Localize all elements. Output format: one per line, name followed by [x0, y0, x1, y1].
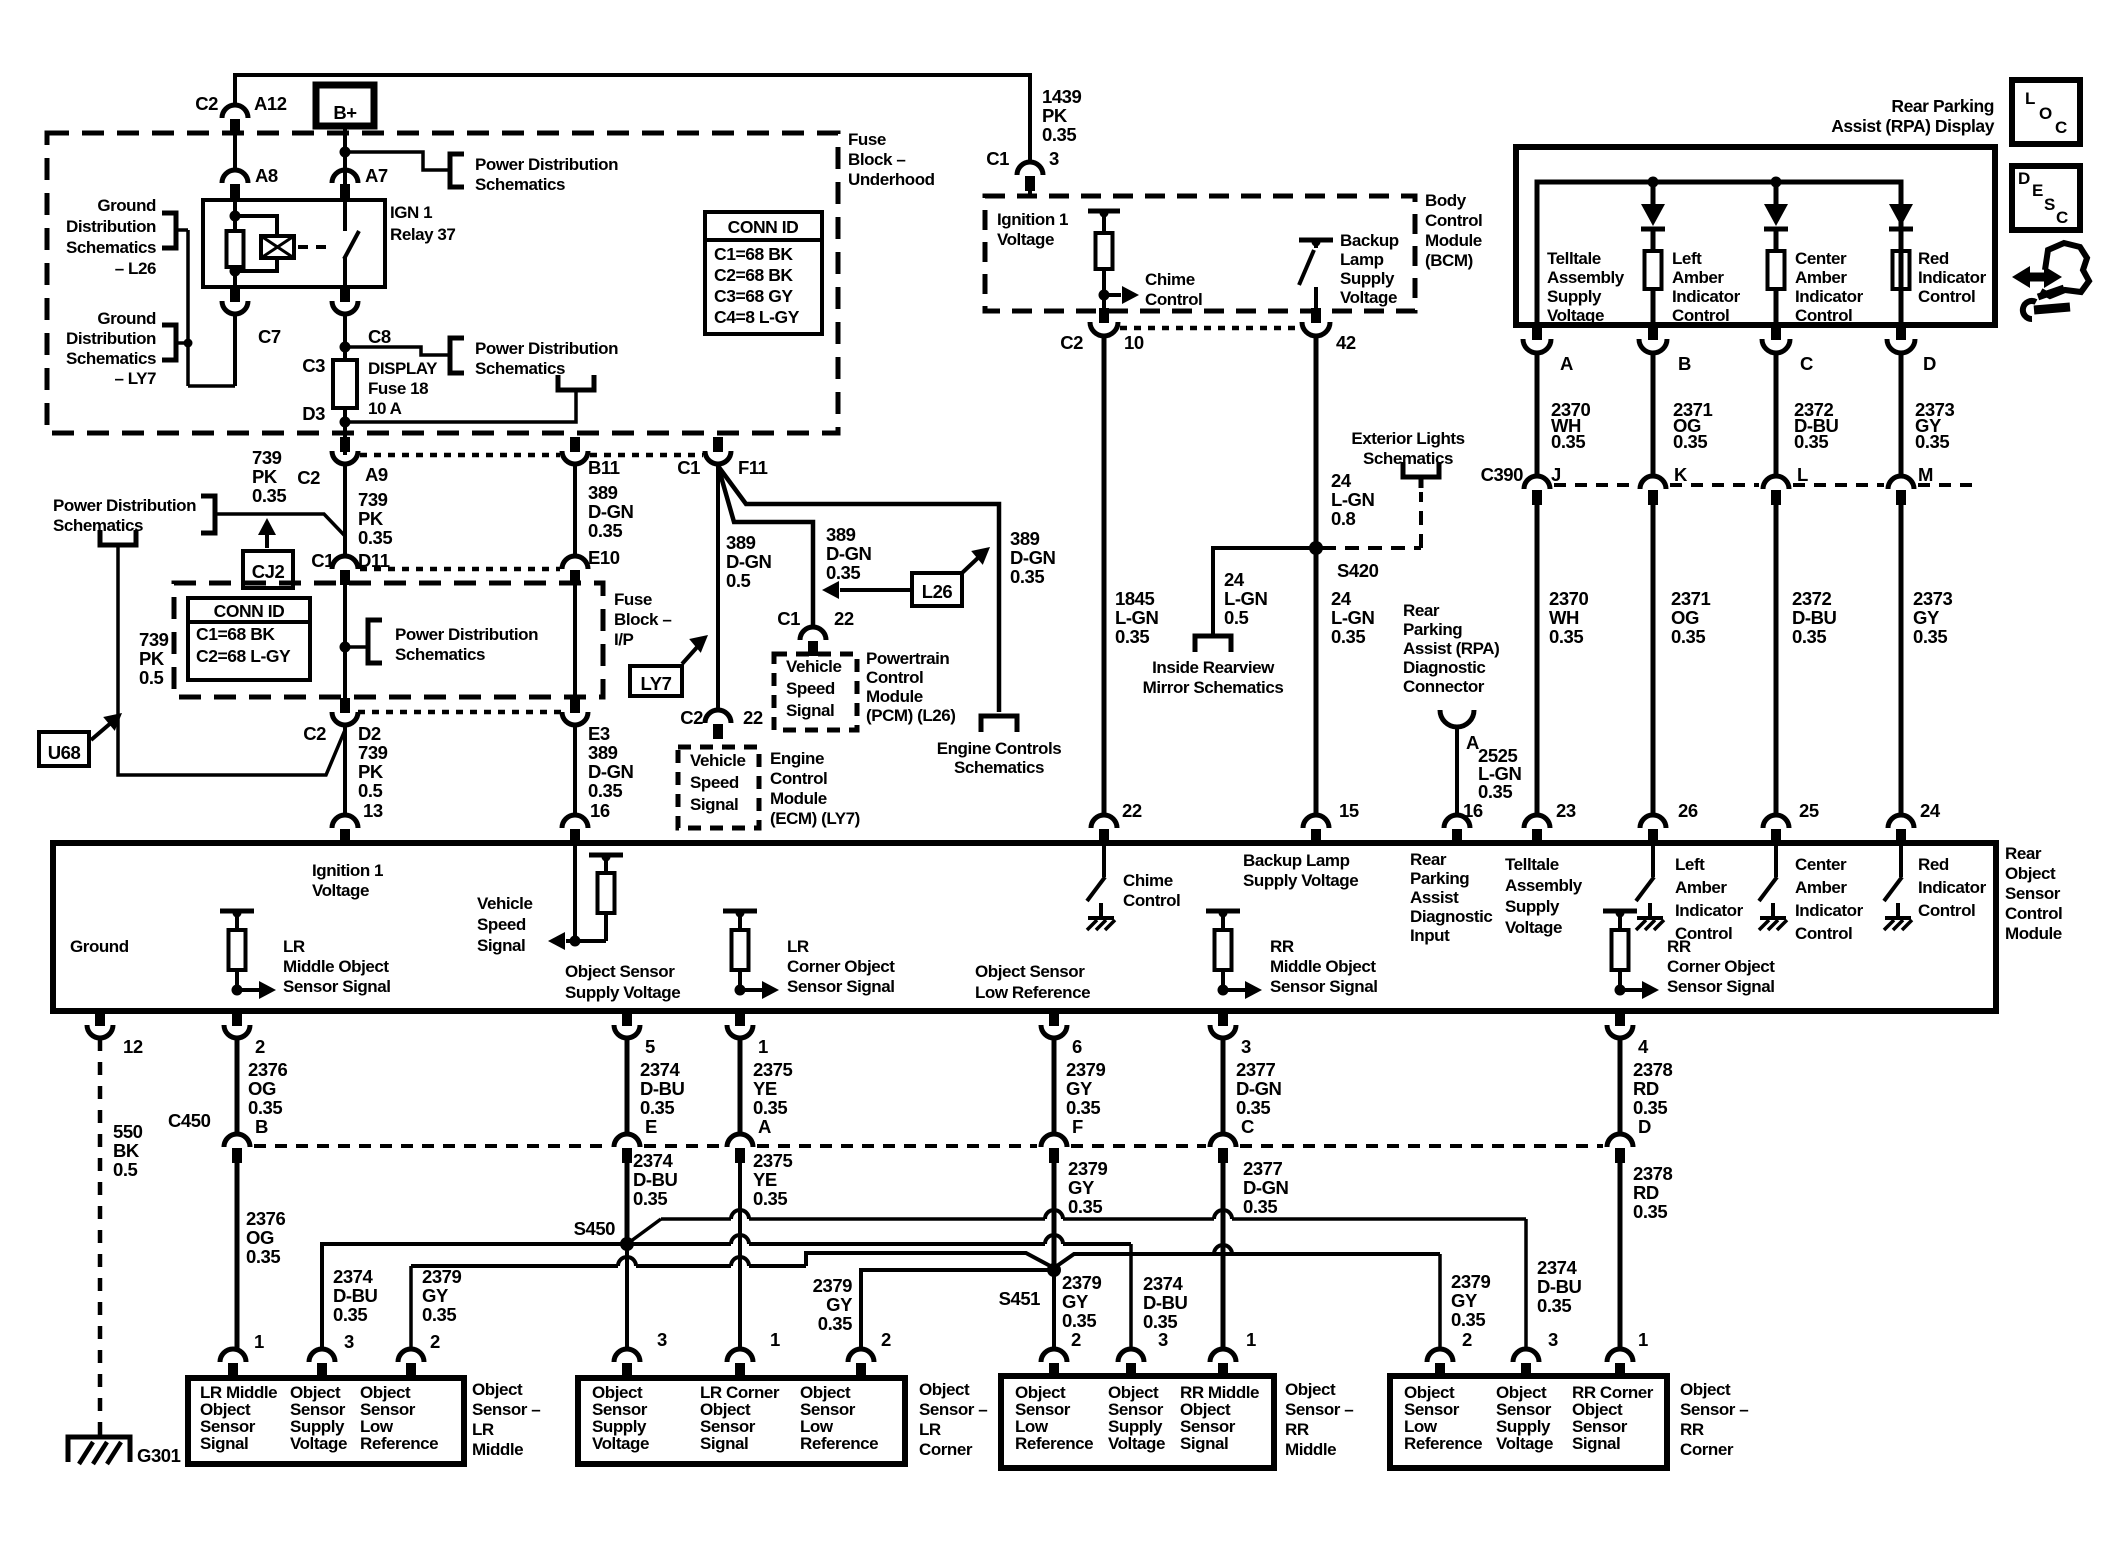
- svg-text:GY: GY: [826, 1294, 853, 1315]
- diode red indicator: [1889, 204, 1913, 226]
- svg-text:3: 3: [657, 1329, 667, 1350]
- svg-text:1: 1: [770, 1329, 780, 1350]
- svg-text:2371: 2371: [1671, 588, 1711, 609]
- svg-text:GY: GY: [1062, 1291, 1089, 1312]
- svg-text:2374: 2374: [1537, 1257, 1578, 1278]
- wire D11 down to D2: [343, 582, 347, 698]
- svg-text:0.5: 0.5: [1224, 607, 1249, 628]
- svg-text:0.35: 0.35: [358, 527, 392, 548]
- svg-text:0.35: 0.35: [1243, 1196, 1277, 1217]
- svg-text:B+: B+: [333, 102, 357, 123]
- svg-text:Telltale: Telltale: [1505, 855, 1559, 874]
- svg-text:2379: 2379: [1062, 1272, 1102, 1293]
- svg-text:Voltage: Voltage: [1496, 1434, 1553, 1453]
- svg-text:B: B: [1678, 353, 1691, 374]
- reference bracket power distribution (top): [450, 154, 464, 187]
- svg-text:OG: OG: [1671, 607, 1699, 628]
- svg-text:0.35: 0.35: [588, 780, 622, 801]
- CONN ID table underhood: [705, 212, 822, 334]
- wire S451 low rail to box4 pin2: [1054, 1254, 1440, 1268]
- svg-text:Center: Center: [1795, 249, 1847, 268]
- svg-text:L26: L26: [922, 581, 953, 602]
- reference bracket ground L26: [162, 213, 176, 248]
- svg-text:C: C: [2056, 208, 2068, 227]
- svg-text:10: 10: [1124, 332, 1144, 353]
- connector C (display): [1771, 325, 1781, 340]
- fan wire to PCM: [718, 466, 813, 627]
- vehicle speed signal internal: [573, 843, 577, 941]
- svg-text:0.35: 0.35: [1537, 1295, 1571, 1316]
- svg-text:Relay 37: Relay 37: [390, 225, 455, 244]
- svg-text:J: J: [1551, 464, 1561, 485]
- svg-text:Fuse 18: Fuse 18: [368, 379, 428, 398]
- svg-text:Left: Left: [1675, 855, 1705, 874]
- C450 connector E: [614, 1134, 640, 1147]
- RR corner sensor internal: [1603, 909, 1637, 914]
- svg-text:Speed: Speed: [786, 679, 835, 698]
- svg-text:Signal: Signal: [1572, 1434, 1620, 1453]
- svg-text:C: C: [1800, 353, 1813, 374]
- svg-text:Supply Voltage: Supply Voltage: [565, 983, 680, 1002]
- object sensor LR corner box: [578, 1378, 905, 1464]
- svg-text:3: 3: [1158, 1329, 1168, 1350]
- svg-text:6: 6: [1072, 1036, 1082, 1057]
- svg-text:LR: LR: [283, 937, 305, 956]
- wire S451 branch to box2 pin2: [861, 1270, 1054, 1349]
- splice S451: [1047, 1263, 1061, 1277]
- svg-text:F11: F11: [738, 457, 768, 478]
- LY7 arrow: [682, 645, 699, 664]
- svg-text:Middle: Middle: [472, 1440, 523, 1459]
- svg-text:2377: 2377: [1243, 1158, 1283, 1179]
- wire E3 to module pin 16: [573, 725, 577, 817]
- svg-text:Sensor Signal: Sensor Signal: [283, 977, 391, 996]
- svg-text:Left: Left: [1672, 249, 1702, 268]
- svg-text:F: F: [1072, 1116, 1083, 1137]
- svg-text:0.35: 0.35: [1673, 431, 1707, 452]
- svg-text:Signal: Signal: [477, 936, 525, 955]
- svg-text:Schematics: Schematics: [66, 238, 156, 257]
- module pin 22 connector: [1091, 815, 1117, 828]
- svg-text:C2: C2: [680, 707, 703, 728]
- svg-text:D11: D11: [358, 550, 390, 571]
- C450 connector F: [1041, 1134, 1067, 1147]
- svg-text:L: L: [2025, 89, 2035, 108]
- svg-text:389: 389: [588, 482, 618, 503]
- svg-text:Module: Module: [866, 687, 923, 706]
- svg-text:YE: YE: [753, 1078, 777, 1099]
- svg-text:Telltale: Telltale: [1547, 249, 1601, 268]
- svg-text:0.35: 0.35: [1062, 1310, 1096, 1331]
- svg-text:Corner: Corner: [1680, 1440, 1734, 1459]
- svg-text:Object: Object: [2005, 864, 2056, 883]
- splice S420: [1309, 541, 1323, 555]
- wire into BCM: [1028, 176, 1032, 196]
- connector C1 3: [1017, 162, 1043, 175]
- svg-text:RD: RD: [1633, 1182, 1659, 1203]
- svg-text:PK: PK: [252, 466, 278, 487]
- svg-text:Chime: Chime: [1123, 871, 1173, 890]
- left amber switch internal: [1651, 846, 1655, 877]
- svg-text:0.5: 0.5: [139, 667, 164, 688]
- svg-text:Object Sensor: Object Sensor: [975, 962, 1085, 981]
- LR corner sensor internal: [723, 909, 757, 914]
- wires display to C390 row: [1535, 352, 1540, 476]
- svg-text:0.35: 0.35: [1792, 626, 1826, 647]
- resistor red indicator: [1893, 251, 1910, 289]
- svg-text:Module: Module: [2005, 924, 2062, 943]
- svg-text:K: K: [1674, 464, 1688, 485]
- object sensor RR middle box: [1001, 1376, 1274, 1468]
- svg-text:739: 739: [358, 489, 388, 510]
- wire E to splice S450: [625, 1163, 630, 1244]
- svg-text:I/P: I/P: [614, 630, 634, 649]
- svg-text:A: A: [758, 1116, 771, 1137]
- svg-text:Chime: Chime: [1145, 270, 1195, 289]
- svg-text:Schematics: Schematics: [66, 349, 156, 368]
- svg-text:C2: C2: [195, 93, 218, 114]
- svg-text:5: 5: [645, 1036, 655, 1057]
- object sensor LR middle box: [188, 1378, 464, 1464]
- svg-text:Ignition 1: Ignition 1: [312, 861, 383, 880]
- ECM vehicle speed signal dashed box: [678, 747, 759, 828]
- svg-text:2379: 2379: [1068, 1158, 1108, 1179]
- svg-text:C1: C1: [986, 148, 1009, 169]
- svg-text:Exterior Lights: Exterior Lights: [1351, 429, 1464, 448]
- resistor center amber: [1768, 251, 1785, 289]
- svg-text:2: 2: [881, 1329, 891, 1350]
- svg-text:Reference: Reference: [1404, 1434, 1482, 1453]
- wire S451 to box3 pin2: [1052, 1270, 1056, 1349]
- svg-text:D-BU: D-BU: [633, 1169, 678, 1190]
- svg-text:Indicator: Indicator: [1675, 901, 1744, 920]
- svg-text:Ground: Ground: [97, 309, 156, 328]
- svg-text:2374: 2374: [333, 1266, 374, 1287]
- svg-text:Corner: Corner: [919, 1440, 973, 1459]
- svg-text:22: 22: [834, 608, 854, 629]
- svg-text:0.35: 0.35: [1042, 124, 1076, 145]
- svg-text:Sensor –: Sensor –: [919, 1400, 987, 1419]
- svg-text:C3=68 GY: C3=68 GY: [714, 286, 793, 306]
- svg-text:Control: Control: [770, 769, 827, 788]
- svg-text:E: E: [645, 1116, 657, 1137]
- connector E10: [562, 556, 588, 569]
- svg-text:A: A: [1560, 353, 1573, 374]
- svg-text:2: 2: [255, 1036, 265, 1057]
- svg-text:1439: 1439: [1042, 86, 1082, 107]
- wire pin4 to C450 D: [1618, 1038, 1623, 1134]
- svg-text:Module: Module: [1425, 231, 1482, 250]
- svg-text:Control: Control: [1795, 306, 1852, 325]
- CJ2 callout box: [243, 551, 293, 588]
- svg-text:RR: RR: [1285, 1420, 1309, 1439]
- svg-text:0.35: 0.35: [753, 1188, 787, 1209]
- svg-text:0.35: 0.35: [826, 562, 860, 583]
- svg-text:RR: RR: [1270, 937, 1294, 956]
- svg-text:2375: 2375: [753, 1150, 793, 1171]
- C450 connector B: [224, 1134, 250, 1147]
- svg-text:LY7: LY7: [641, 673, 672, 694]
- fuse DISPLAY Fuse 18 10A: [333, 360, 357, 408]
- svg-text:24: 24: [1331, 470, 1352, 491]
- wires C390 to module: [1535, 505, 1540, 817]
- L26 callout box: [912, 573, 962, 606]
- svg-text:1: 1: [1246, 1329, 1256, 1350]
- svg-text:RR: RR: [1680, 1420, 1704, 1439]
- svg-text:16: 16: [590, 800, 610, 821]
- module pin 5 connector: [622, 1011, 632, 1026]
- svg-text:389: 389: [1010, 528, 1040, 549]
- svg-text:0.35: 0.35: [1478, 781, 1512, 802]
- svg-text:Rear: Rear: [2005, 844, 2042, 863]
- svg-text:(PCM) (L26): (PCM) (L26): [866, 706, 956, 725]
- svg-text:0.35: 0.35: [588, 520, 622, 541]
- svg-text:B: B: [255, 1116, 268, 1137]
- connector A (display): [1532, 325, 1542, 340]
- svg-text:Sensor –: Sensor –: [1680, 1400, 1748, 1419]
- svg-text:C2=68 BK: C2=68 BK: [714, 265, 793, 285]
- svg-text:L-GN: L-GN: [1115, 607, 1159, 628]
- wire S420 to inside rearview mirror: [1213, 548, 1316, 636]
- svg-text:0.35: 0.35: [333, 1304, 367, 1325]
- svg-text:2: 2: [1071, 1329, 1081, 1350]
- svg-text:Object Sensor: Object Sensor: [565, 962, 675, 981]
- svg-text:2372: 2372: [1792, 588, 1832, 609]
- svg-text:2374: 2374: [1143, 1273, 1184, 1294]
- module pin 1 connector: [735, 1011, 745, 1026]
- C450 connector A: [727, 1134, 753, 1147]
- svg-text:0.35: 0.35: [1115, 626, 1149, 647]
- DESC box: [2012, 166, 2080, 230]
- svg-text:D: D: [2018, 169, 2030, 188]
- svg-text:E: E: [2032, 181, 2043, 200]
- svg-text:Power Distribution: Power Distribution: [53, 496, 196, 515]
- svg-text:2378: 2378: [1633, 1059, 1673, 1080]
- battery feed B+: [316, 85, 374, 126]
- svg-text:Ground: Ground: [70, 937, 129, 956]
- center amber switch internal: [1774, 846, 1778, 877]
- wire S450 branch to box1 pin3: [322, 1244, 627, 1349]
- inside rearview mirror reference: [1195, 636, 1231, 652]
- svg-text:Indicator: Indicator: [1795, 901, 1864, 920]
- svg-text:E10: E10: [588, 547, 620, 568]
- splice S450: [620, 1237, 634, 1251]
- module pin 16 connector: [562, 815, 588, 828]
- svg-text:389: 389: [726, 532, 756, 553]
- module pin 12 connector: [95, 1011, 105, 1026]
- svg-text:Voltage: Voltage: [1340, 288, 1397, 307]
- wire chime to module pin 22: [1102, 335, 1107, 815]
- svg-text:D-GN: D-GN: [1236, 1078, 1282, 1099]
- svg-text:Object: Object: [919, 1380, 970, 1399]
- svg-text:Voltage: Voltage: [1505, 918, 1562, 937]
- svg-text:0.35: 0.35: [422, 1304, 456, 1325]
- relay coil: [233, 200, 237, 231]
- svg-text:2376: 2376: [248, 1059, 288, 1080]
- svg-text:Control: Control: [1123, 891, 1180, 910]
- svg-text:Corner Object: Corner Object: [787, 957, 895, 976]
- svg-text:Object: Object: [1285, 1380, 1336, 1399]
- svg-text:Sensor –: Sensor –: [1285, 1400, 1353, 1419]
- svg-text:Vehicle: Vehicle: [690, 751, 745, 770]
- svg-text:C3: C3: [302, 355, 325, 376]
- svg-text:C2: C2: [1060, 332, 1083, 353]
- exterior lights reference: [1403, 462, 1439, 477]
- connector C2 10: [1099, 308, 1109, 323]
- fan wire to ECM: [716, 466, 720, 712]
- svg-text:Supply Voltage: Supply Voltage: [1243, 871, 1358, 890]
- svg-text:Amber: Amber: [1675, 878, 1727, 897]
- svg-text:Connector: Connector: [1403, 677, 1485, 696]
- reference bracket ground LY7: [162, 325, 176, 360]
- svg-text:Block –: Block –: [614, 610, 671, 629]
- svg-text:C8: C8: [368, 326, 391, 347]
- diode center amber: [1774, 182, 1779, 204]
- svg-text:D-BU: D-BU: [640, 1078, 685, 1099]
- svg-text:– L26: – L26: [115, 259, 156, 278]
- svg-text:Control: Control: [1675, 924, 1732, 943]
- fan wire to engine controls: [718, 466, 999, 712]
- svg-text:Voltage: Voltage: [592, 1434, 649, 1453]
- svg-text:D3: D3: [302, 403, 325, 424]
- svg-text:2379: 2379: [422, 1266, 462, 1287]
- svg-text:GY: GY: [422, 1285, 449, 1306]
- svg-text:Corner Object: Corner Object: [1667, 957, 1775, 976]
- wire B to sensor LR middle pin 1: [235, 1163, 240, 1349]
- resistor left amber: [1645, 251, 1662, 289]
- wire to power distribution reference: [345, 152, 448, 170]
- svg-text:0.35: 0.35: [1633, 1201, 1667, 1222]
- svg-text:A9: A9: [365, 464, 388, 485]
- connector A8: [233, 133, 237, 172]
- L26 arrow to wire: [840, 588, 912, 592]
- svg-text:Middle: Middle: [1285, 1440, 1336, 1459]
- svg-text:L: L: [1797, 464, 1808, 485]
- svg-text:Low Reference: Low Reference: [975, 983, 1090, 1002]
- svg-text:0.35: 0.35: [1451, 1309, 1485, 1330]
- svg-text:C1: C1: [677, 457, 700, 478]
- wire RPA diag to module pin 16: [1455, 727, 1459, 817]
- svg-text:Sensor –: Sensor –: [472, 1400, 540, 1419]
- svg-text:389: 389: [826, 524, 856, 545]
- svg-text:Control: Control: [2005, 904, 2062, 923]
- svg-text:Diagnostic: Diagnostic: [1403, 658, 1485, 677]
- svg-text:A7: A7: [365, 165, 388, 186]
- svg-text:2: 2: [430, 1331, 440, 1352]
- svg-text:Supply: Supply: [1505, 897, 1560, 916]
- svg-text:Control: Control: [866, 668, 923, 687]
- svg-text:13: 13: [363, 800, 383, 821]
- svg-text:3: 3: [1049, 148, 1059, 169]
- svg-text:2376: 2376: [246, 1208, 286, 1229]
- svg-text:C1=68 BK: C1=68 BK: [196, 624, 275, 644]
- RPA diagnostic connector: [1440, 710, 1474, 727]
- svg-text:Vehicle: Vehicle: [786, 657, 841, 676]
- svg-text:0.35: 0.35: [1549, 626, 1583, 647]
- C450 connector D: [1607, 1134, 1633, 1147]
- svg-text:Backup: Backup: [1340, 231, 1399, 250]
- svg-text:C7: C7: [258, 326, 281, 347]
- connector D (display): [1896, 325, 1906, 340]
- svg-text:PK: PK: [1042, 105, 1068, 126]
- svg-text:L-GN: L-GN: [1331, 607, 1375, 628]
- object sensor RR corner box: [1390, 1376, 1667, 1468]
- wire ground references to C7: [176, 228, 188, 232]
- svg-text:739: 739: [358, 742, 388, 763]
- module pin 2 connector: [232, 1011, 242, 1026]
- svg-text:Rear: Rear: [1403, 601, 1440, 620]
- U68 callout box: [39, 732, 89, 766]
- svg-text:O: O: [2039, 104, 2052, 123]
- svg-text:C1=68 BK: C1=68 BK: [714, 244, 793, 264]
- svg-text:Control: Control: [1918, 901, 1975, 920]
- svg-text:Engine Controls: Engine Controls: [937, 739, 1062, 758]
- svg-text:L-GN: L-GN: [1331, 489, 1375, 510]
- PCM vehicle speed signal dashed box: [774, 654, 857, 730]
- svg-text:CONN ID: CONN ID: [214, 601, 285, 621]
- LR middle sensor internal: [220, 909, 254, 914]
- svg-text:Lamp: Lamp: [1340, 250, 1384, 269]
- svg-text:Control: Control: [1795, 924, 1852, 943]
- module pin 16 connector (RPA): [1444, 815, 1470, 828]
- CONN ID table I/P: [188, 598, 310, 680]
- svg-text:0.35: 0.35: [640, 1097, 674, 1118]
- svg-text:24: 24: [1224, 569, 1245, 590]
- svg-text:Red: Red: [1918, 249, 1949, 268]
- wire to power distribution reference (C8): [345, 347, 448, 355]
- svg-text:PK: PK: [358, 761, 384, 782]
- svg-text:Indicator: Indicator: [1795, 287, 1864, 306]
- svg-text:Rear Parking: Rear Parking: [1891, 96, 1994, 116]
- wire S450 to box2 pin3: [625, 1244, 629, 1349]
- svg-text:U68: U68: [48, 742, 81, 763]
- svg-text:Fuse: Fuse: [614, 590, 652, 609]
- svg-text:0.35: 0.35: [1331, 626, 1365, 647]
- svg-text:1845: 1845: [1115, 588, 1155, 609]
- svg-text:Diagnostic: Diagnostic: [1410, 907, 1492, 926]
- C450 connector C: [1210, 1134, 1236, 1147]
- wire D2 to module pin 13: [343, 725, 347, 815]
- svg-text:0.35: 0.35: [252, 485, 286, 506]
- L26 arrow up-right: [962, 556, 980, 573]
- module pin 3 connector: [1218, 1011, 1228, 1026]
- svg-text:739: 739: [252, 447, 282, 468]
- svg-text:Amber: Amber: [1795, 878, 1847, 897]
- svg-text:Schematics: Schematics: [1363, 449, 1453, 468]
- svg-text:Indicator: Indicator: [1918, 878, 1987, 897]
- connector D11: [332, 556, 358, 569]
- svg-text:0.35: 0.35: [1671, 626, 1705, 647]
- connector B (display): [1648, 325, 1658, 340]
- svg-text:0.35: 0.35: [1068, 1196, 1102, 1217]
- svg-text:D-GN: D-GN: [826, 543, 872, 564]
- wire pin6 to C450 F: [1052, 1038, 1057, 1134]
- connector 42: [1311, 308, 1321, 323]
- svg-text:Speed: Speed: [477, 915, 526, 934]
- svg-text:Input: Input: [1410, 926, 1450, 945]
- svg-text:Supply: Supply: [1547, 287, 1602, 306]
- svg-text:Sensor Signal: Sensor Signal: [1270, 977, 1378, 996]
- elbow from power distribution text to column: [215, 514, 345, 536]
- wire E10 to E3: [573, 582, 577, 698]
- svg-text:S: S: [2044, 195, 2055, 214]
- svg-text:0.35: 0.35: [1915, 431, 1949, 452]
- svg-text:0.5: 0.5: [358, 780, 383, 801]
- ground G301: [68, 1437, 130, 1462]
- svg-text:Control: Control: [1145, 290, 1202, 309]
- wire C8 to fuse: [343, 314, 347, 360]
- svg-text:Object: Object: [472, 1380, 523, 1399]
